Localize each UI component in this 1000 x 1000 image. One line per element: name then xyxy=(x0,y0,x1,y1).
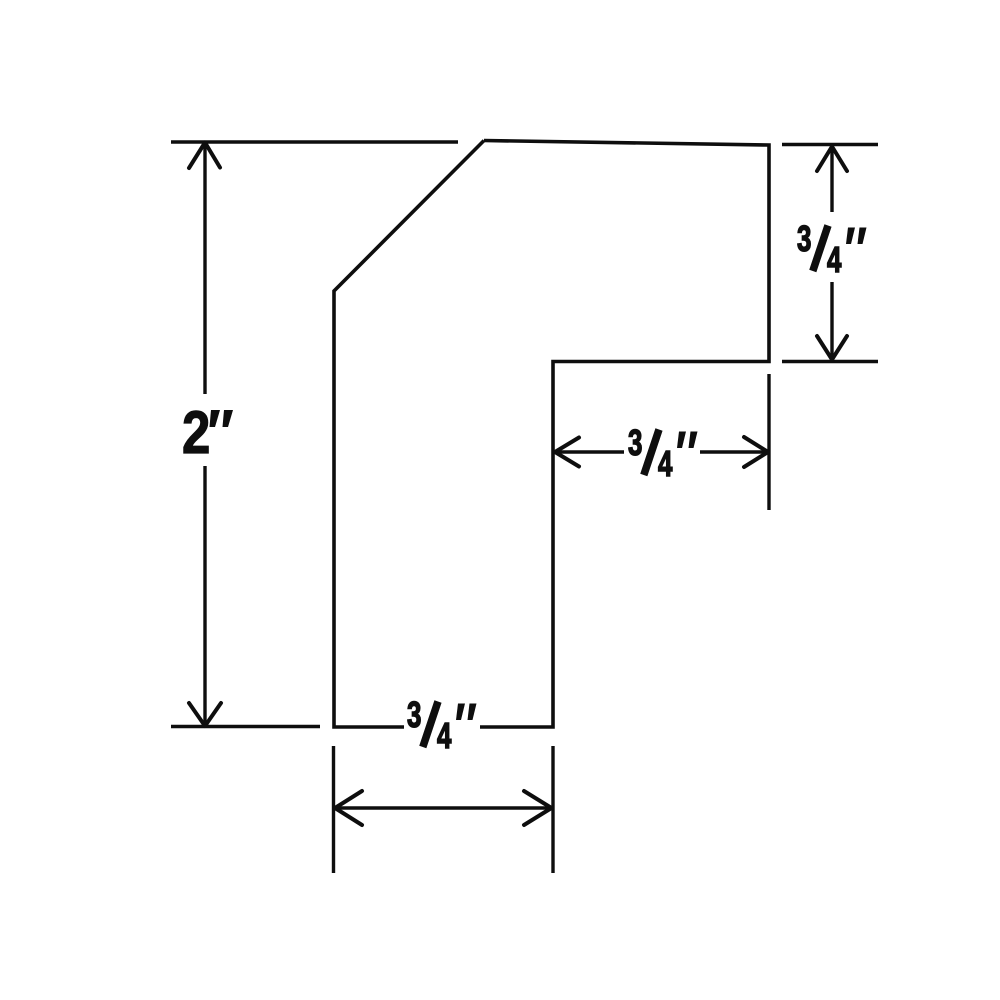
arrowhead up (2-inch top) xyxy=(189,143,220,169)
svg-text:2: 2 xyxy=(182,399,210,466)
extension line mid-right (step level) xyxy=(782,360,878,363)
dimension 2-inch shaft upper segment xyxy=(203,146,206,394)
label 3/4 inch right xyxy=(797,219,867,280)
label 2 inch xyxy=(182,399,233,466)
arrowhead down (right dim bottom) xyxy=(817,336,847,360)
dimension bottom line xyxy=(336,806,551,809)
extension line below step (right vertical) xyxy=(767,374,770,510)
svg-text:4: 4 xyxy=(658,444,673,484)
profile outline (left leg: chamfer, left edge, bottom edge left part) xyxy=(334,141,484,728)
arrowhead right (middle dim) xyxy=(744,437,768,467)
svg-text:3: 3 xyxy=(797,219,811,259)
arrowhead left (middle dim) xyxy=(555,438,579,467)
extension line bottom-left xyxy=(171,725,320,728)
profile outline (bottom edge right part, inner vertical, step, right edge, top edge) xyxy=(480,141,769,728)
dimension 3/4-inch middle line left segment xyxy=(556,450,624,453)
label 3/4 inch bottom (on bottom edge) xyxy=(407,695,477,756)
arrowhead right (bottom dim) xyxy=(524,791,552,825)
arrowhead down (2-inch bottom) xyxy=(189,703,221,726)
dimension 3/4-inch right shaft lower segment xyxy=(830,282,833,357)
extension line bottom dim right vertical xyxy=(551,746,554,873)
svg-text:3: 3 xyxy=(628,423,642,463)
svg-text:4: 4 xyxy=(827,240,842,280)
extension line top-left xyxy=(171,140,458,143)
dimension 3/4-inch middle line right segment xyxy=(700,450,766,453)
label 3/4 inch middle xyxy=(628,423,698,484)
dimension 3/4-inch right shaft upper segment xyxy=(830,148,833,212)
svg-text:4: 4 xyxy=(437,716,452,756)
extension line top-right xyxy=(782,143,878,146)
arrowhead left (bottom dim) xyxy=(335,791,362,825)
dimension 2-inch shaft lower segment xyxy=(203,466,206,723)
svg-text:3: 3 xyxy=(407,695,421,735)
extension line bottom dim left vertical xyxy=(332,746,335,873)
arrowhead up (right dim top) xyxy=(817,147,847,172)
